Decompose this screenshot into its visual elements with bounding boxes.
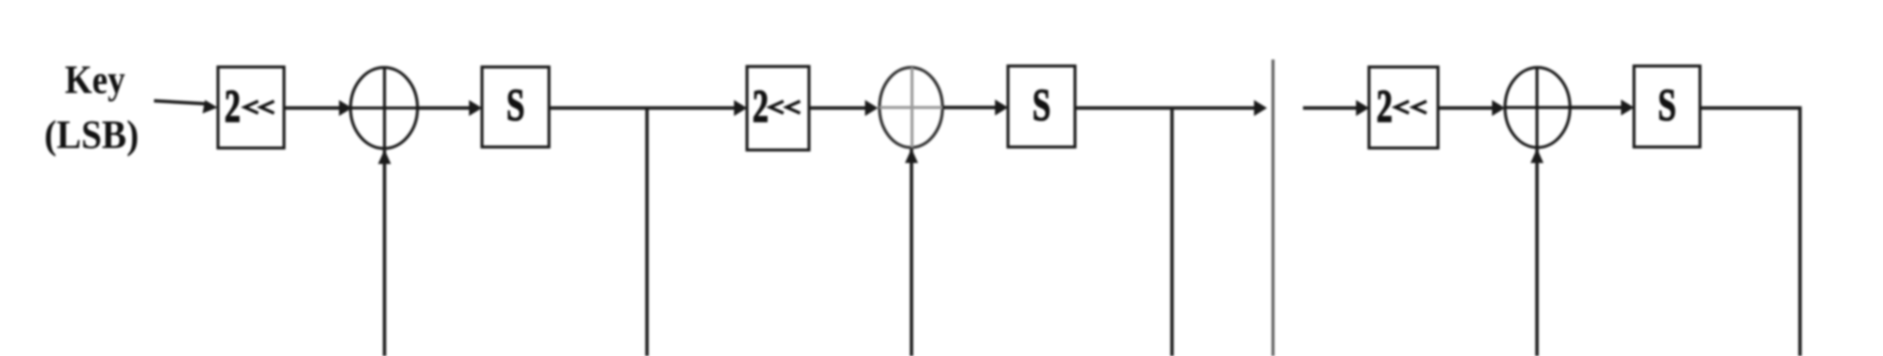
svg-text:2: 2: [225, 80, 241, 132]
wire box3 to xor3: [1438, 100, 1505, 116]
xor X1: [351, 68, 418, 149]
wire sbox3 output right and down: [1700, 108, 1800, 356]
shift box 2<< (stage 2): [747, 67, 809, 151]
wire sbox2 to separator: [1075, 100, 1267, 116]
wire xor3 to sbox3: [1569, 100, 1634, 116]
svg-text:(LSB): (LSB): [44, 114, 139, 158]
wire xor2 to sbox2: [943, 100, 1009, 116]
wire xor1 to sbox1: [417, 100, 482, 116]
s-box S (stage 3): [1634, 66, 1700, 147]
svg-text:S: S: [1658, 80, 1676, 130]
svg-text:2: 2: [753, 80, 769, 132]
node junction drop after sbox2: [1170, 108, 1173, 356]
wire key input arrow: [154, 100, 218, 114]
svg-text:2: 2: [1377, 80, 1393, 132]
shift box 2<< (stage 1): [218, 67, 284, 148]
svg-text:S: S: [1032, 80, 1050, 130]
xor X2 (grey cross): [880, 68, 943, 148]
wire box1 to xor1: [284, 100, 352, 116]
wire bottom input into xor1: [378, 150, 391, 356]
wire box2 to xor2: [809, 100, 878, 116]
shift box 2<< (stage 3): [1369, 67, 1438, 148]
svg-text:Key: Key: [65, 58, 125, 103]
xor X3: [1505, 68, 1570, 148]
s-box S (stage 1): [482, 67, 549, 147]
wire sbox1 to box2: [549, 100, 747, 116]
separator line (ellipsis divider): [1272, 60, 1275, 356]
wire bottom input into xor2: [905, 149, 918, 356]
wire into box3: [1303, 100, 1369, 116]
svg-text:S: S: [506, 80, 524, 130]
s-box S (stage 2): [1008, 66, 1075, 147]
wire bottom input into xor3: [1531, 149, 1544, 356]
label Key (LSB): [44, 58, 139, 158]
node junction drop after sbox1: [645, 108, 648, 356]
